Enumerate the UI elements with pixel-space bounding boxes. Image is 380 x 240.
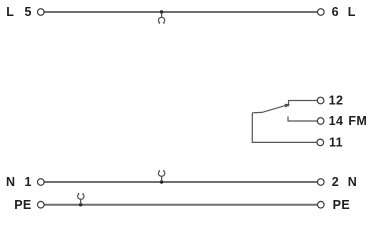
- svg-text:L: L: [348, 5, 356, 19]
- svg-text:PE: PE: [333, 198, 350, 212]
- svg-text:PE: PE: [14, 198, 31, 212]
- terminal circle 12: [317, 97, 324, 104]
- svg-text:6: 6: [332, 5, 339, 19]
- svg-text:11: 11: [329, 136, 343, 150]
- terminal circle 14: [317, 118, 324, 125]
- arrester plug socket on N (opening up): [158, 170, 164, 182]
- wire L line: [44, 11, 317, 13]
- changeover contact: arm arrowhead: [285, 104, 291, 108]
- svg-text:5: 5: [25, 5, 32, 19]
- svg-text:N: N: [348, 175, 357, 189]
- changeover contact: moving arm: [252, 106, 285, 113]
- svg-text:2: 2: [332, 175, 339, 189]
- svg-text:FM: FM: [348, 114, 367, 128]
- terminal circle 5 (L left): [38, 9, 45, 16]
- terminal circle 6 (L right): [318, 9, 325, 16]
- svg-text:12: 12: [329, 94, 344, 108]
- terminal circle PE left: [38, 201, 45, 208]
- changeover contact: fixed contact 14 wire: [288, 116, 317, 121]
- svg-text:1: 1: [25, 175, 32, 189]
- terminal circle 1 (N left): [38, 179, 45, 186]
- changeover contact: common 11 wire: [252, 113, 317, 143]
- terminal circle PE right: [318, 201, 325, 208]
- node junction on L: [160, 10, 163, 13]
- terminal circle 11: [317, 139, 324, 146]
- terminal circle 2 (N right): [318, 179, 325, 186]
- node junction on PE: [79, 203, 82, 206]
- wire PE line: [44, 204, 317, 206]
- arrester plug socket on PE (opening up): [78, 193, 84, 205]
- svg-text:L: L: [6, 5, 14, 19]
- changeover contact: fixed contact 12 wire: [289, 101, 318, 107]
- arrester plug socket on L (opening down): [158, 12, 164, 24]
- wire N line: [44, 181, 317, 183]
- node junction on N: [160, 180, 163, 183]
- svg-text:N: N: [6, 175, 15, 189]
- svg-text:14: 14: [329, 114, 344, 128]
